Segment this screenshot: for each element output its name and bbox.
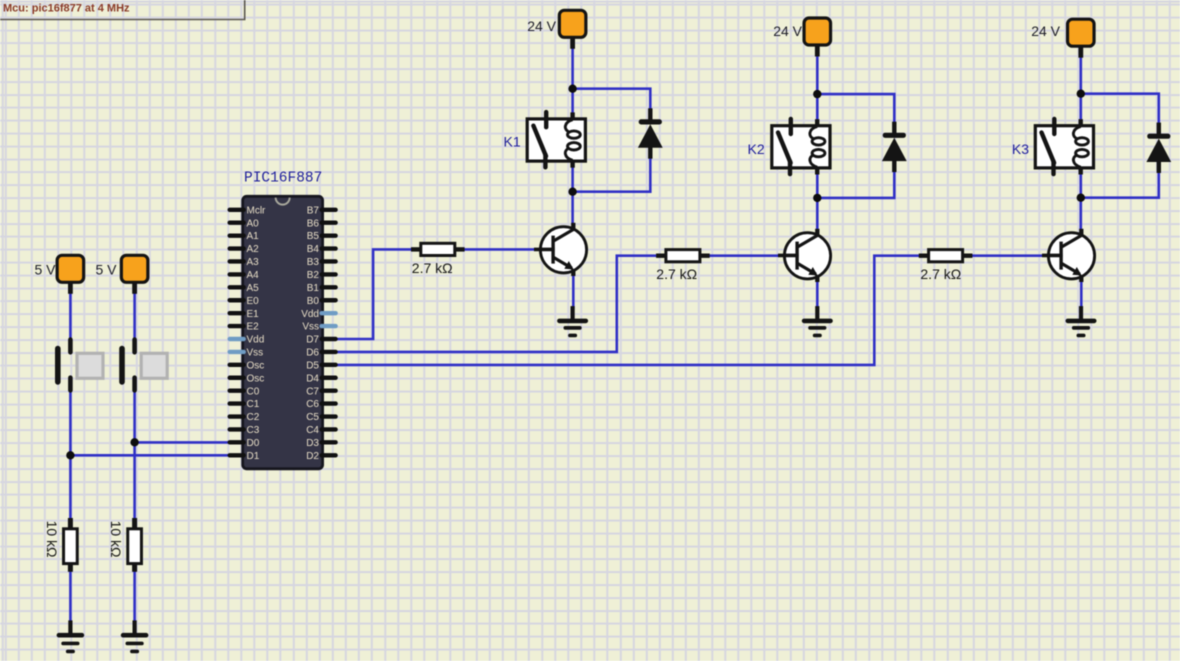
svg-text:B4: B4 (307, 244, 320, 255)
svg-text:24 V: 24 V (527, 18, 556, 34)
svg-text:C7: C7 (306, 386, 319, 397)
svg-text:Mcu: pic16f877 at 4 MHz: Mcu: pic16f877 at 4 MHz (3, 3, 130, 15)
svg-text:K1: K1 (504, 133, 521, 149)
svg-text:24 V: 24 V (1031, 23, 1060, 39)
svg-text:2.7 kΩ: 2.7 kΩ (656, 266, 697, 282)
svg-text:C3: C3 (247, 425, 260, 436)
svg-text:K2: K2 (748, 141, 765, 157)
svg-text:D5: D5 (306, 360, 319, 371)
svg-text:E2: E2 (247, 322, 260, 333)
svg-text:2.7 kΩ: 2.7 kΩ (920, 266, 961, 282)
svg-text:C1: C1 (247, 399, 260, 410)
svg-text:B5: B5 (307, 231, 320, 242)
svg-text:Osc: Osc (247, 373, 265, 384)
svg-text:B6: B6 (307, 218, 320, 229)
svg-text:10 kΩ: 10 kΩ (108, 521, 124, 558)
svg-text:D4: D4 (306, 373, 319, 384)
svg-text:D0: D0 (247, 438, 260, 449)
svg-text:D2: D2 (306, 451, 319, 462)
svg-text:A5: A5 (247, 283, 260, 294)
svg-text:A0: A0 (247, 218, 260, 229)
svg-text:B0: B0 (307, 296, 320, 307)
svg-text:A2: A2 (247, 244, 260, 255)
svg-text:B7: B7 (307, 205, 320, 216)
svg-text:Osc: Osc (247, 360, 265, 371)
svg-text:K3: K3 (1012, 141, 1029, 157)
svg-text:E1: E1 (247, 309, 260, 320)
svg-text:B3: B3 (307, 257, 320, 268)
svg-text:PIC16F887: PIC16F887 (244, 171, 322, 187)
svg-text:B2: B2 (307, 270, 320, 281)
svg-text:C4: C4 (306, 425, 319, 436)
svg-text:5 V: 5 V (95, 262, 117, 278)
svg-text:Mclr: Mclr (247, 205, 267, 216)
svg-text:24 V: 24 V (773, 23, 802, 39)
svg-text:C0: C0 (247, 386, 260, 397)
svg-text:C6: C6 (306, 399, 319, 410)
svg-text:C2: C2 (247, 412, 260, 423)
svg-text:D3: D3 (306, 438, 319, 449)
svg-text:Vss: Vss (302, 322, 319, 333)
svg-text:Vdd: Vdd (247, 335, 265, 346)
svg-text:D7: D7 (306, 335, 319, 346)
svg-text:E0: E0 (247, 296, 260, 307)
svg-text:D1: D1 (247, 451, 260, 462)
svg-text:D6: D6 (306, 348, 319, 359)
svg-text:10 kΩ: 10 kΩ (44, 521, 60, 558)
svg-text:Vss: Vss (247, 348, 264, 359)
svg-text:C5: C5 (306, 412, 319, 423)
svg-text:A4: A4 (247, 270, 260, 281)
svg-text:2.7 kΩ: 2.7 kΩ (412, 260, 453, 276)
svg-text:A3: A3 (247, 257, 260, 268)
svg-text:5 V: 5 V (34, 262, 56, 278)
svg-text:Vdd: Vdd (301, 309, 319, 320)
svg-text:B1: B1 (307, 283, 320, 294)
svg-text:A1: A1 (247, 231, 260, 242)
